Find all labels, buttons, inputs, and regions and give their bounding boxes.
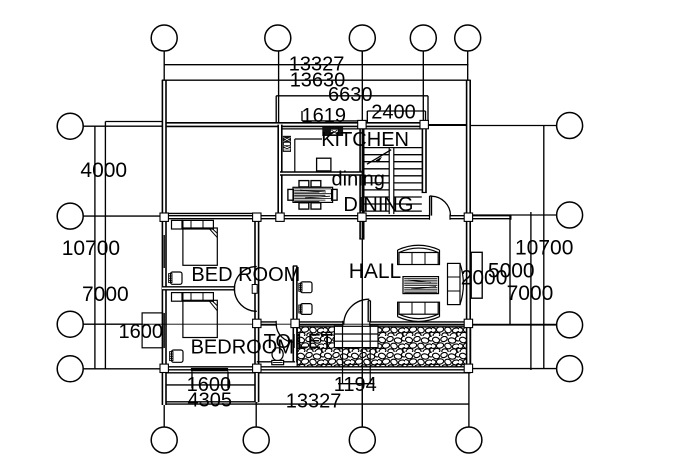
wall: row3 left segment [255, 321, 277, 325]
kitchen counter edge [295, 138, 322, 140]
svg-text:4305: 4305 [188, 389, 233, 411]
wall: row2 (door to E, extends to dim line) [450, 215, 511, 219]
top edge terrace (single) [427, 124, 471, 126]
axis row3 thin line [142, 323, 556, 325]
dining table [293, 187, 333, 202]
bed2 folded corner [209, 300, 218, 311]
dim line 1619 [302, 120, 361, 122]
passage chair 2 [301, 304, 313, 315]
svg-text:13327: 13327 [286, 391, 342, 413]
svg-text:HALL: HALL [349, 260, 402, 283]
staircase [364, 148, 422, 212]
svg-text:10700: 10700 [62, 237, 120, 260]
wall: right (E axis) [466, 80, 471, 371]
left leaders [83, 125, 162, 127]
column markers [160, 120, 473, 372]
right leaders [471, 125, 557, 127]
svg-text:7000: 7000 [82, 283, 129, 306]
sofa top (3 seat) [399, 248, 438, 252]
bed2 body [183, 300, 217, 337]
kitchen sink unit (hatched) on west wall [283, 136, 291, 152]
row4 outer finish line [162, 372, 471, 374]
svg-text:dining: dining [332, 169, 385, 191]
door: hall-terrace leaf [429, 196, 431, 216]
grid stems top [163, 51, 165, 80]
TV unit right [448, 263, 461, 304]
window: bedroom2 south wall (solid bar) [191, 368, 228, 371]
wall: kitchen west (B axis) [277, 125, 282, 218]
stair direction arrow [367, 150, 391, 165]
bottom dim 4305 [162, 401, 258, 403]
left dim verticals [94, 126, 96, 369]
bed2 pillows [183, 293, 214, 302]
toilet south edge [257, 361, 295, 363]
passage chair 1 [301, 282, 313, 293]
dining chairs top [299, 181, 309, 187]
svg-text:BED ROOM: BED ROOM [191, 264, 300, 286]
WC pan [272, 348, 283, 361]
dining chair left [288, 189, 294, 200]
hall centre table [403, 277, 439, 294]
wall: hall west stub [359, 217, 364, 239]
dim box 2400 [367, 110, 425, 112]
grid bubbles top [151, 25, 177, 51]
door arc: hall-terrace [432, 196, 451, 216]
axis line C vertical [361, 52, 363, 428]
wall: dining east / stairs west (C axis) [359, 125, 364, 218]
wall: kitchen top inner line [282, 128, 422, 130]
door arc: main entrance [344, 299, 370, 325]
wall: row3 mid segment [295, 321, 343, 325]
wall: bottom row4 [162, 366, 471, 370]
TV unit dim box [471, 252, 482, 298]
dining chairs bottom [299, 203, 309, 209]
right dim verticals [509, 215, 511, 325]
wall: row2 (A to terrace door) [162, 215, 430, 219]
svg-text:2000: 2000 [461, 267, 508, 290]
wall end caps [342, 321, 344, 326]
top dim line 6630 [276, 95, 428, 97]
bed2 chair [172, 350, 184, 362]
bottom dim 13327 [164, 403, 469, 405]
svg-text:TOILET: TOILET [264, 331, 334, 353]
bed1 chair [171, 272, 183, 284]
door: main entrance leaf [367, 301, 369, 323]
wall: kitchen-dining divider [280, 171, 362, 175]
row2 bedroom finish line [162, 212, 257, 214]
stair rail [389, 148, 394, 215]
door arc: toilet [276, 324, 294, 342]
bed1 pillows [183, 220, 214, 229]
wall: stairs east (D axis) [422, 125, 427, 193]
svg-text:KITCHEN: KITCHEN [321, 129, 409, 151]
grid bubbles right [557, 113, 583, 139]
wall: outer top [162, 122, 427, 127]
svg-text:DINING: DINING [343, 194, 413, 216]
svg-text:2400: 2400 [371, 102, 416, 124]
porch floor hatch [297, 327, 470, 368]
svg-text:1619: 1619 [302, 105, 347, 127]
top dim line 13327 [164, 64, 468, 66]
svg-text:7000: 7000 [507, 282, 554, 305]
wall: row3 right segment [370, 321, 471, 325]
svg-text:1600: 1600 [119, 321, 164, 343]
svg-text:10700: 10700 [515, 237, 573, 260]
bed2 side table [172, 293, 183, 302]
bottom stems [162, 368, 167, 405]
kitchen stool square [317, 158, 331, 171]
window: bedroom1 west wall [163, 235, 165, 268]
bay window: bedroom2 west [142, 313, 163, 348]
bottom dim 1194 [342, 327, 344, 385]
kitchen stove on top wall (hatched) [322, 127, 343, 136]
grid bubbles left [57, 113, 83, 139]
svg-text:4000: 4000 [80, 159, 127, 182]
bed1 folded corner [209, 228, 218, 238]
top dim line 13630 [162, 79, 470, 81]
wall: toilet east [293, 266, 298, 363]
wall: left (A axis) [162, 80, 167, 371]
sofa bottom (3 seat) [399, 314, 438, 318]
wall: bedroom divider [162, 286, 235, 290]
door leaf stub bedroom [252, 285, 257, 294]
grid bubbles bottom [151, 427, 177, 453]
bed1 side table [172, 220, 183, 229]
bed1 body [183, 228, 217, 265]
bottom dim 1600 [191, 372, 193, 389]
porch step (white notch) [334, 326, 378, 347]
wall: bedroom east (B-prime axis) [254, 215, 259, 371]
door arc: bedroom1/2 (semicircle at B-prime) [234, 267, 256, 312]
dining chair right [332, 189, 338, 200]
svg-text:6630: 6630 [328, 84, 373, 106]
